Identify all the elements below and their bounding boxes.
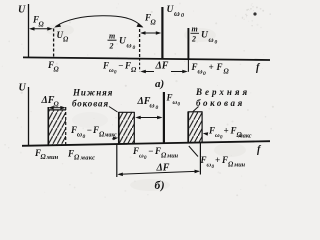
svg-text:Ω: Ω [74, 154, 80, 162]
svg-text:Ω: Ω [131, 66, 137, 74]
svg-text:U: U [18, 5, 26, 16]
upper sideband line [187, 28, 189, 59]
svg-text:f: f [257, 145, 262, 156]
svg-text:0: 0 [212, 165, 215, 170]
Delta F_omega0 double arrow [135, 116, 162, 120]
svg-text:0: 0 [83, 134, 86, 140]
svg-text:Верхняя: Верхняя [195, 87, 250, 97]
label F_omega0 - F_Omega min [132, 146, 179, 161]
svg-text:2: 2 [109, 42, 114, 51]
label m/2 U_omega0 left sideband [108, 32, 136, 52]
scan noise speckle [2, 0, 274, 198]
svg-text:F: F [191, 62, 198, 72]
x-axis bottom plot [22, 141, 270, 146]
svg-text:Ω: Ω [54, 66, 60, 74]
svg-text:0: 0 [156, 105, 159, 111]
svg-text:0: 0 [144, 156, 147, 161]
svg-text:Ω: Ω [224, 68, 230, 76]
svg-text:F: F [102, 61, 109, 71]
svg-text:мин: мин [233, 162, 246, 169]
svg-text:F: F [92, 125, 99, 135]
x tick label F_omega0 - F_Omega [102, 61, 137, 76]
Delta F bottom: right tick [199, 142, 201, 174]
svg-text:2: 2 [191, 35, 196, 44]
svg-text:ω: ω [198, 68, 203, 76]
svg-text:0: 0 [181, 13, 184, 19]
svg-text:f: f [256, 63, 261, 74]
svg-text:F: F [208, 126, 215, 136]
scan noise dot [253, 12, 256, 15]
svg-text:мин: мин [166, 153, 179, 160]
svg-text:ω: ω [150, 102, 155, 110]
svg-text:0: 0 [178, 103, 181, 108]
svg-text:ω: ω [174, 9, 180, 18]
svg-text:+: + [215, 155, 220, 165]
dashed tick below axis at lower sideband [139, 58, 141, 71]
leader to upper sideband [193, 107, 199, 112]
leader to F_omega0+F_Omega min [189, 146, 198, 157]
Delta F bottom: left tick [116, 144, 118, 177]
svg-text:Ω: Ω [54, 101, 60, 109]
svg-text:Нижняя: Нижняя [72, 88, 113, 98]
svg-text:ΔF: ΔF [155, 61, 169, 72]
svg-text:Ω: Ω [39, 21, 45, 29]
hatched lower sideband block [119, 112, 135, 144]
svg-text:m: m [109, 32, 115, 41]
svg-text:F: F [166, 93, 173, 103]
svg-text:0: 0 [114, 71, 117, 76]
svg-text:F: F [216, 62, 223, 72]
label F_omega0 + F_Omega min [200, 155, 246, 170]
svg-text:0: 0 [215, 40, 218, 46]
svg-text:мин: мин [46, 154, 59, 161]
svg-text:F: F [124, 61, 131, 71]
svg-text:+: + [224, 126, 229, 136]
svg-text:F: F [230, 126, 237, 136]
svg-text:−: − [87, 125, 92, 135]
svg-text:m: m [192, 25, 198, 34]
envelope curved arrow [56, 16, 143, 27]
y-axis top plot [28, 4, 30, 58]
svg-text:F: F [154, 146, 161, 156]
dashed lower sideband line [139, 29, 141, 58]
svg-text:макс: макс [238, 133, 252, 140]
x-axis top plot [23, 57, 270, 60]
svg-text:0: 0 [203, 71, 206, 77]
x tick label F_omega0 + F_Omega [191, 62, 230, 77]
svg-text:макс: макс [80, 155, 96, 162]
svg-text:0: 0 [220, 136, 223, 141]
Delta F bottom double arrow [117, 170, 200, 177]
svg-text:F: F [67, 149, 74, 159]
svg-text:−: − [118, 61, 123, 71]
label m/2 U_omega0 right sideband [191, 25, 218, 46]
svg-text:0: 0 [133, 45, 136, 51]
svg-text:F: F [221, 155, 228, 165]
svg-text:F: F [132, 146, 139, 156]
dashed spectral line U_Omega [53, 29, 55, 59]
hatched band F_Omega min..max [48, 107, 66, 145]
svg-text:ω: ω [127, 42, 132, 50]
F_Omega double arrow left [29, 27, 53, 31]
svg-text:Ω: Ω [151, 19, 157, 27]
hatched upper sideband block [188, 112, 203, 143]
svg-text:U: U [19, 83, 27, 94]
tick below axis at upper sideband [187, 59, 189, 72]
svg-text:боковая: боковая [196, 98, 245, 108]
label F_omega0 + F_Omega maks with left arrow [203, 126, 252, 141]
Delta F arrow segments top [140, 70, 188, 74]
svg-text:+: + [209, 62, 214, 72]
svg-text:−: − [148, 146, 153, 156]
svg-text:б): б) [155, 180, 166, 192]
leader to lower sideband [109, 107, 118, 113]
svg-text:Ω: Ω [63, 36, 69, 44]
y-axis bottom plot [28, 87, 30, 146]
svg-text:ΔF: ΔF [156, 163, 170, 174]
carrier line U_omega0 [161, 7, 163, 59]
svg-text:а): а) [155, 78, 164, 90]
Delta F_Omega double arrow [48, 106, 66, 110]
svg-text:F: F [70, 125, 77, 135]
carrier line F_omega0 bottom [163, 92, 165, 143]
svg-text:боковая: боковая [72, 99, 109, 109]
F_Omega double arrow right [140, 31, 161, 35]
svg-text:ω: ω [77, 131, 82, 139]
label F_omega0 - F_Omega maks with arrow [70, 125, 118, 140]
svg-text:ω: ω [209, 36, 214, 44]
